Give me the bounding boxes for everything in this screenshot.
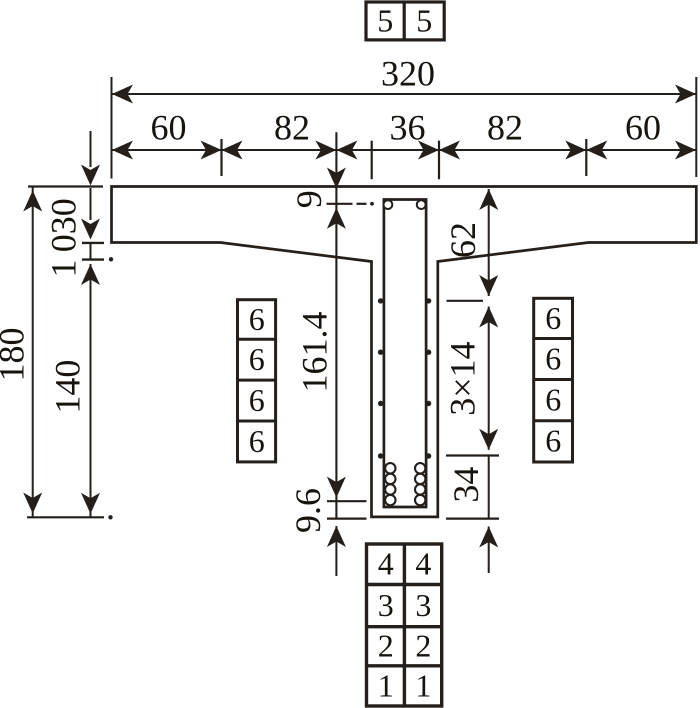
chain left end arrowhead <box>112 141 133 160</box>
svg-text:180: 180 <box>0 328 31 382</box>
dimension 9 arrowhead into beam top <box>327 168 346 189</box>
dimension text 9.6 <box>288 488 328 533</box>
svg-text:6: 6 <box>545 423 561 459</box>
dimension 320 line <box>112 93 696 95</box>
dimension 1 030 arrowhead at flange bottom <box>81 219 100 240</box>
dimension 3x14 top arrowhead <box>479 307 498 328</box>
svg-text:6: 6 <box>249 341 265 377</box>
dimension text 9 <box>289 190 329 208</box>
rebar label table top (5 5) <box>366 2 444 40</box>
extension tick beam bottom center <box>327 517 367 519</box>
side rebar dot row 1 left <box>378 298 383 303</box>
dimension text 3x14 <box>443 341 483 415</box>
dimension 62 line <box>488 189 490 296</box>
dimension 320 right arrowhead <box>675 85 696 104</box>
dimension 1 030 upper shaft <box>90 131 92 167</box>
chain arrowhead 60 right <box>201 141 222 160</box>
rebar label boxes left (6 6 6 6) <box>238 300 276 462</box>
dimension 180 line <box>32 187 34 518</box>
dimension 180 top arrowhead <box>23 191 42 212</box>
dimension 3x14 line <box>488 307 490 450</box>
bottom extension line at beam bottom left <box>27 516 104 518</box>
svg-text:3: 3 <box>378 587 394 623</box>
center bottom arrowhead pointing up <box>327 526 346 547</box>
center bottom shaft <box>335 526 337 576</box>
svg-text:6: 6 <box>249 382 265 418</box>
extension tick first side bar <box>447 300 484 302</box>
dimension 161.4 bottom arrowhead <box>327 477 346 498</box>
side rebar dot row 4 right <box>426 453 431 458</box>
svg-text:82: 82 <box>487 108 523 148</box>
dimension text 161.4 <box>294 312 334 393</box>
bottom rebar circle left col 4 <box>385 495 395 505</box>
top rebar level dot <box>370 202 374 206</box>
haunch level dash-dot dot <box>109 257 113 261</box>
dimension text 34 <box>446 467 486 503</box>
chain right end arrowhead <box>675 141 696 160</box>
chain arrowhead 36 left <box>336 141 357 160</box>
svg-text:62: 62 <box>443 222 483 258</box>
side rebar dot row 1 right <box>426 298 431 303</box>
side rebar dot row 2 left <box>378 350 383 355</box>
chain arrowhead right-82 left <box>439 141 460 160</box>
bottom rebar circle right col 1 <box>415 463 425 473</box>
svg-text:34: 34 <box>446 467 486 503</box>
dimension 320 left arrowhead <box>112 85 133 104</box>
bottom rebar circle right col 4 <box>415 495 425 505</box>
chain dimension tick 60/82 <box>220 139 222 176</box>
dimension 1 030 mid shaft <box>90 188 92 220</box>
extension tick bottom bar top <box>446 454 499 456</box>
svg-text:2: 2 <box>378 628 394 664</box>
dimension 34 shaft <box>488 456 490 519</box>
svg-text:6: 6 <box>545 381 561 417</box>
chain dimension tick web right <box>438 141 440 180</box>
chain dimension tick web left <box>371 141 373 180</box>
right bottom shaft <box>488 527 490 574</box>
dimension text 62 <box>443 222 483 258</box>
svg-text:3×14: 3×14 <box>443 341 483 415</box>
bottom extension dash-dot dot <box>108 515 112 519</box>
side rebar dot row 2 right <box>426 350 431 355</box>
bottom rebar circle left col 3 <box>385 484 395 494</box>
rebar label table bottom (4 4 / 3 3 / 2 2 / 1 1) <box>367 544 442 706</box>
svg-text:1: 1 <box>415 667 431 703</box>
dimension 140 top arrowhead <box>81 264 100 285</box>
chain dimension line <box>112 149 696 151</box>
stirrup outline inside web <box>384 200 426 508</box>
dimension 62 top arrowhead <box>479 189 498 210</box>
chain arrowhead right-60 left <box>586 141 607 160</box>
svg-text:4: 4 <box>378 546 394 582</box>
svg-text:320: 320 <box>381 54 435 94</box>
svg-text:1: 1 <box>378 667 394 703</box>
top rebar level extension tick <box>327 203 353 205</box>
svg-text:6: 6 <box>249 423 265 459</box>
svg-text:6: 6 <box>545 340 561 376</box>
dimension text 140 <box>47 360 87 414</box>
top rebar circle right <box>417 200 426 209</box>
dimension 320 extension line left <box>111 77 113 179</box>
svg-text:2: 2 <box>415 628 431 664</box>
dimension 9 upper shaft <box>335 132 337 518</box>
dimension 140 line <box>90 264 92 517</box>
top rebar level dash <box>357 203 367 205</box>
svg-text:5: 5 <box>377 3 393 39</box>
right bottom arrowhead pointing up <box>479 527 498 548</box>
svg-text:1 030: 1 030 <box>43 198 83 277</box>
svg-text:6: 6 <box>545 300 561 336</box>
svg-text:82: 82 <box>274 108 310 148</box>
rebar label boxes right (6 6 6 6) <box>534 298 573 462</box>
side rebar dot row 3 right <box>426 401 431 406</box>
dimension 3x14 bottom arrowhead <box>479 429 498 450</box>
extension tick at flange edge bottom <box>82 242 104 244</box>
svg-text:9: 9 <box>289 190 329 208</box>
svg-text:5: 5 <box>416 3 432 39</box>
dimension 161.4 top arrowhead <box>327 208 346 229</box>
chain arrowhead right-82 right <box>565 141 586 160</box>
chain arrowhead 82 right <box>315 141 336 160</box>
bottom rebar circle right col 2 <box>415 474 425 484</box>
extension tick at haunch bottom level <box>82 258 104 260</box>
svg-text:6: 6 <box>249 301 265 337</box>
svg-text:4: 4 <box>415 546 431 582</box>
svg-text:9.6: 9.6 <box>288 488 328 533</box>
dimension 320 extension line right <box>695 77 697 177</box>
svg-text:3: 3 <box>415 587 431 623</box>
dimension 180 bottom arrowhead <box>23 493 42 514</box>
T-beam cross-section outline <box>112 187 697 517</box>
svg-text:161.4: 161.4 <box>294 312 334 393</box>
dimension shaft between ticks <box>90 243 92 260</box>
svg-text:140: 140 <box>47 360 87 414</box>
dimension text 180 <box>0 328 31 382</box>
side rebar dot row 4 left <box>378 453 383 458</box>
chain arrowhead 82 left <box>222 141 243 160</box>
bottom rebar circle left col 1 <box>385 463 395 473</box>
bottom rebar circle left col 2 <box>385 474 395 484</box>
bottom rebar circle right col 3 <box>415 484 425 494</box>
svg-text:60: 60 <box>151 108 187 148</box>
chain arrowhead 36 right <box>418 141 439 160</box>
extension tick 161.4 bottom <box>327 500 367 502</box>
svg-text:36: 36 <box>390 108 426 148</box>
extension tick beam bottom right <box>446 517 499 519</box>
top rebar circle left <box>384 200 393 209</box>
dimension 140 bottom arrowhead <box>81 493 100 514</box>
dimension text 1 030 <box>43 198 83 277</box>
side rebar dot row 3 left <box>378 401 383 406</box>
top extension line at beam top left <box>28 185 103 187</box>
dimension 1 030 arrowhead into beam top <box>81 165 100 186</box>
svg-text:60: 60 <box>625 108 661 148</box>
dimension 62 bottom arrowhead <box>479 275 498 296</box>
chain dimension tick 82/60 <box>585 139 587 176</box>
